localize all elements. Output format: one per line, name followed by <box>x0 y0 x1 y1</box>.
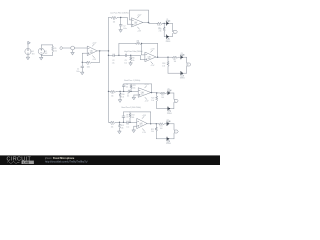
label Band Pass 1 <box>124 80 140 82</box>
svg-text:R22: R22 <box>151 129 154 131</box>
transistor Q8 <box>166 137 171 145</box>
resistor R2 feedback <box>82 51 99 63</box>
voltage source V3 bias <box>71 46 75 50</box>
svg-text:V1: V1 <box>32 51 34 53</box>
ground below R10 <box>118 100 121 103</box>
label R2 <box>87 64 91 68</box>
resistor R21 <box>159 123 165 125</box>
resistor R9 <box>110 90 116 92</box>
wire OA3 output to stage Q3 <box>156 56 168 58</box>
resistor R17 <box>172 56 178 58</box>
node R2 C1 junction <box>82 62 83 63</box>
resistor R20 lower branch <box>156 93 168 109</box>
node R11 wire junction <box>130 91 131 92</box>
wire OA3 feedback box <box>119 44 158 58</box>
resistor R4 <box>111 16 117 18</box>
svg-text:R13: R13 <box>121 125 124 127</box>
svg-text:R20: R20 <box>151 98 154 100</box>
capacitor C8 <box>122 112 125 122</box>
node C6 tap <box>123 91 124 92</box>
wire OA5 output to stage Q7 <box>147 123 159 125</box>
wire R12 to C9 <box>116 121 127 123</box>
wire Q4 emitter to port <box>184 66 187 73</box>
svg-text:R18: R18 <box>162 63 165 65</box>
title text <box>44 157 88 164</box>
svg-text:10k: 10k <box>113 22 116 24</box>
svg-text:2.0k: 2.0k <box>151 131 154 133</box>
label Low Pass Filter <box>110 12 129 15</box>
voltage source V1 <box>25 48 31 54</box>
svg-text:R19: R19 <box>161 95 164 97</box>
label R4 <box>113 19 116 23</box>
svg-text:10.0n: 10.0n <box>123 28 127 30</box>
port OUT4 <box>175 130 179 133</box>
label V2 <box>45 51 49 55</box>
resistor R18 lower branch <box>167 57 181 73</box>
svg-text:R9: R9 <box>111 93 113 95</box>
transistor Q3 <box>180 53 185 59</box>
label C2 <box>123 26 127 30</box>
svg-text:http://circuitlab.com/c/7m8y/7: http://circuitlab.com/c/7m8y/7m8ky7y/ <box>45 160 88 164</box>
svg-text:100: 100 <box>160 128 163 130</box>
label C6 <box>126 84 129 88</box>
watermark bar <box>0 155 220 165</box>
ground below V3 <box>71 50 74 55</box>
label C3 <box>112 60 115 64</box>
op-amp OA5 <box>137 115 147 134</box>
label R17 <box>173 59 176 63</box>
label High Pass Filter <box>124 50 143 53</box>
wire bus to R4 <box>109 17 112 19</box>
label C5 <box>124 60 127 64</box>
wire C3 to C5 <box>114 54 125 56</box>
svg-text:1.0k: 1.0k <box>121 127 124 129</box>
node X BP1 <box>119 91 120 92</box>
capacitor C6 <box>122 84 125 92</box>
svg-text:C6: C6 <box>126 84 128 86</box>
label R6 <box>132 58 135 62</box>
wire OA2 output to stage Q1 <box>143 22 157 25</box>
node stage1 junction <box>164 23 165 24</box>
svg-text:100: 100 <box>161 97 164 99</box>
svg-text:100: 100 <box>174 61 177 63</box>
node OA5 output <box>150 123 151 124</box>
svg-text:2N3906: 2N3906 <box>166 143 171 145</box>
svg-text:10n: 10n <box>127 96 130 98</box>
svg-text:10k: 10k <box>132 60 135 62</box>
svg-text:2N3904: 2N3904 <box>167 90 172 92</box>
port OUT3 <box>175 99 179 102</box>
svg-text:10k: 10k <box>111 126 114 128</box>
wire OA5 noninverting to ground <box>134 126 137 130</box>
op-amp OA2 <box>132 14 143 32</box>
label R18 <box>162 63 165 67</box>
svg-text:100k: 100k <box>131 117 134 119</box>
wire C7 to OA4 <box>129 90 138 92</box>
wire Q5 emitter to port <box>171 93 174 99</box>
node X BP2 <box>119 122 120 123</box>
svg-text:C9: C9 <box>127 124 129 126</box>
svg-text:1.0u: 1.0u <box>124 62 127 64</box>
resistor R15 <box>157 22 163 24</box>
wire Q1 emitter to port <box>169 23 172 31</box>
resistor R6 <box>130 55 132 63</box>
svg-text:2N3906: 2N3906 <box>166 41 171 43</box>
ground below C2 <box>119 30 122 33</box>
transistor Q5 <box>167 89 172 95</box>
svg-text:jrlsco / Fixed Microphone: jrlsco / Fixed Microphone <box>44 157 75 160</box>
wire bus to R12 <box>109 121 110 123</box>
svg-text:2N3904: 2N3904 <box>180 54 185 56</box>
ground below R13 <box>118 131 121 134</box>
wire MIC port to V3 <box>63 47 71 49</box>
label R10 <box>121 94 124 98</box>
wire OA1 output to bus <box>97 50 109 52</box>
svg-text:R21: R21 <box>160 125 163 127</box>
svg-text:Band Pass 1 (700Hz): Band Pass 1 (700Hz) <box>124 80 140 82</box>
wire Q8 emitter to port <box>170 133 174 139</box>
svg-text:R15: R15 <box>158 25 161 27</box>
label R20 <box>151 98 154 102</box>
node A HPF <box>118 55 119 56</box>
label R9 <box>111 93 114 97</box>
resistor R22 lower branch <box>155 124 167 139</box>
label R21 <box>160 125 163 129</box>
svg-text:R6: R6 <box>132 58 134 60</box>
wire OA3 inverting input <box>142 44 145 55</box>
wire OA2 feedback box <box>130 10 149 22</box>
node R8 junction <box>141 43 142 44</box>
label C1 <box>76 69 80 73</box>
wire signal bus vertical <box>108 18 110 123</box>
svg-text:2N3904: 2N3904 <box>166 121 171 123</box>
svg-text:R14: R14 <box>132 114 135 116</box>
wire R15 to Q1 <box>163 22 167 24</box>
svg-text:1.0u: 1.0u <box>112 62 115 64</box>
wire loop V2 to R1 <box>41 45 52 55</box>
svg-text:Low Pass Filter (6.8kHz): Low Pass Filter (6.8kHz) <box>110 12 129 15</box>
node C2 tap <box>120 17 121 18</box>
label R16 <box>159 28 162 32</box>
voltage source V1 signal flag <box>28 41 30 48</box>
ground below V1 <box>26 55 29 60</box>
wire OA5 feedback box <box>124 112 151 124</box>
wire Q3 emitter to port <box>184 57 187 63</box>
resistor R13 <box>119 122 121 131</box>
wire V3 to op-amp OA1 <box>75 47 88 49</box>
ground at OA5 input <box>132 130 135 133</box>
svg-text:R12: R12 <box>111 124 114 126</box>
svg-text:C1: C1 <box>77 69 79 71</box>
svg-text:C7: C7 <box>127 94 129 96</box>
op-amp OA3 <box>145 49 156 67</box>
capacitor C1 <box>81 62 84 72</box>
transistor Q1 <box>166 19 171 25</box>
capacitor C9 <box>127 121 128 124</box>
svg-text:R4: R4 <box>113 19 115 21</box>
wire bus to C3 <box>109 54 114 56</box>
wire Q2 emitter to port <box>169 33 172 36</box>
label R14 <box>131 114 134 118</box>
label R8 <box>136 41 140 45</box>
label R13 <box>121 125 124 129</box>
svg-text:10k: 10k <box>111 95 114 97</box>
svg-text:LAB: LAB <box>23 161 30 165</box>
port OUT2 <box>187 63 191 66</box>
capacitor C5 <box>125 54 126 57</box>
svg-text:2.0k: 2.0k <box>151 100 154 102</box>
node OA3 output <box>157 57 158 58</box>
svg-text:1.0u: 1.0u <box>126 126 129 128</box>
port OUT1 <box>174 30 178 33</box>
node stage3 junction <box>156 92 157 93</box>
wire Q6 emitter to port <box>171 102 174 108</box>
wire bus to R9 <box>109 90 111 92</box>
svg-text:C8: C8 <box>126 115 128 117</box>
svg-text:R17: R17 <box>173 59 176 61</box>
svg-text:R16: R16 <box>159 28 162 30</box>
label V1 <box>32 51 35 55</box>
resistor R8 feedback <box>136 43 142 45</box>
resistor R16 lower branch <box>163 23 167 36</box>
label C8 <box>126 115 129 119</box>
ground at OA4 input <box>132 97 135 100</box>
svg-text:2N3906: 2N3906 <box>167 113 172 115</box>
svg-text:10n: 10n <box>126 86 129 88</box>
label C9 <box>126 124 129 128</box>
wire OA1 inverting input to feedback <box>82 53 87 62</box>
svg-text:High Pass Filter (300Hz): High Pass Filter (300Hz) <box>124 50 143 53</box>
svg-text:1.0k: 1.0k <box>121 97 124 99</box>
resistor R14 feedback <box>129 112 131 122</box>
node C8 tap <box>123 122 124 123</box>
label R19 <box>161 95 164 99</box>
ground below C1 <box>81 72 84 75</box>
transistor Q6 <box>167 107 172 115</box>
transistor Q2 <box>166 35 171 43</box>
svg-text:100k: 100k <box>132 87 135 89</box>
wire Q7 emitter to port <box>170 124 174 130</box>
op-amp OA4 <box>138 84 151 102</box>
wire C5 to OA3 noninverting input <box>127 55 145 59</box>
svg-text:10k: 10k <box>54 50 57 52</box>
svg-text:100u: 100u <box>76 71 80 73</box>
capacitor C3 <box>113 54 114 57</box>
port MIC input flag <box>60 46 63 49</box>
node stage4 junction <box>156 123 157 124</box>
wire R4 to op-amp OA2 input <box>118 18 132 25</box>
label R11 <box>132 85 135 89</box>
resistor R12 <box>110 121 116 123</box>
svg-text:2.0k: 2.0k <box>162 66 165 68</box>
wire R19 to Q5 <box>166 92 168 94</box>
svg-text:100k: 100k <box>87 66 91 68</box>
node bus BP1 row <box>108 91 109 92</box>
resistor R19 <box>161 92 167 94</box>
capacitor C2 <box>119 18 122 30</box>
CircuitLab logo <box>7 157 34 165</box>
op-amp OA1 <box>87 43 97 61</box>
svg-text:C2: C2 <box>123 26 125 28</box>
svg-text:2N3904: 2N3904 <box>166 21 171 23</box>
svg-text:1.0u: 1.0u <box>126 117 129 119</box>
wire OA4 noninverting to ground <box>134 95 138 97</box>
wire OA4 feedback box <box>124 84 152 93</box>
node bus HPF row <box>108 55 109 56</box>
svg-text:R1: R1 <box>54 48 56 50</box>
capacitor C7 <box>128 90 129 93</box>
svg-text:2N3906: 2N3906 <box>180 77 185 79</box>
node OA2 output <box>148 22 149 23</box>
svg-text:V2: V2 <box>45 51 47 53</box>
wire R17 to Q3 <box>178 56 181 58</box>
label R1 <box>54 48 57 52</box>
ground below R6 <box>129 63 132 66</box>
label Band Pass 2 <box>122 107 142 109</box>
label R12 <box>111 124 114 128</box>
wire R9 to C7 <box>116 90 128 92</box>
label R22 <box>151 129 154 133</box>
node R14 wire junction <box>129 122 130 123</box>
wire C9 to OA5 <box>128 121 137 123</box>
node stage2 junction <box>167 57 168 58</box>
label R15 <box>158 25 161 29</box>
voltage source V2 microphone <box>38 48 44 54</box>
node feedback tap <box>99 50 100 51</box>
svg-text:R11: R11 <box>133 85 136 87</box>
svg-text:C5: C5 <box>125 60 127 62</box>
node R6 tap <box>130 55 131 56</box>
resistor R1 <box>52 46 54 52</box>
svg-text:2.0k: 2.0k <box>159 31 162 33</box>
transistor Q7 <box>166 120 171 126</box>
wire R21 to Q7 <box>165 123 167 125</box>
transistor Q4 <box>180 71 185 79</box>
resistor R11 feedback <box>130 84 132 92</box>
svg-text:C3: C3 <box>112 60 114 62</box>
ground below V2 <box>40 54 43 60</box>
node bus stage1 output <box>108 50 109 51</box>
svg-text:Band Pass 2 (300-700Hz): Band Pass 2 (300-700Hz) <box>122 107 142 109</box>
node OA4 output <box>151 92 152 93</box>
resistor R10 <box>119 91 121 99</box>
svg-text:R10: R10 <box>122 94 125 96</box>
wire OA4 output to stage Q5 <box>151 92 161 94</box>
svg-text:R2: R2 <box>87 64 89 66</box>
label C7 <box>127 94 130 98</box>
wire stage2 to R17 <box>168 56 172 58</box>
